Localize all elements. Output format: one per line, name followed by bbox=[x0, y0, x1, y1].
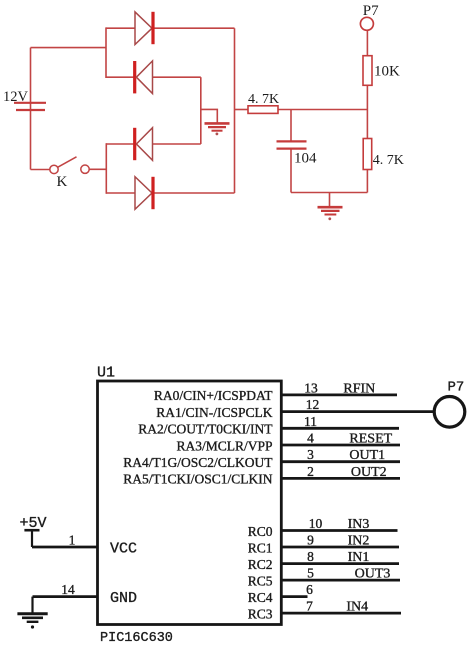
diode D2 cathode bar bbox=[133, 61, 136, 93]
ground G2 bars bbox=[318, 207, 343, 214]
diode D4 triangle bbox=[135, 177, 152, 210]
wire mid vertical D2-D3 bbox=[200, 77, 202, 144]
svg-text:U1: U1 bbox=[97, 365, 115, 382]
svg-text:9: 9 bbox=[307, 533, 314, 548]
power +5V symbol bbox=[24, 529, 39, 532]
diode D4 anode wire bbox=[106, 192, 135, 194]
pin names RA group bbox=[123, 388, 273, 487]
wire junction down to R3 bbox=[366, 110, 368, 139]
switch K right contact bbox=[81, 165, 89, 173]
svg-text:11: 11 bbox=[304, 414, 317, 429]
pin 1 stub bbox=[32, 546, 98, 549]
power +5V stem bbox=[31, 530, 33, 547]
svg-text:RC0: RC0 bbox=[248, 524, 273, 539]
ground G2 stub bbox=[329, 193, 331, 207]
diode D2 left wire bbox=[106, 76, 134, 78]
pin 11 stub bbox=[281, 427, 399, 430]
svg-text:OUT1: OUT1 bbox=[349, 448, 385, 463]
svg-text:P7: P7 bbox=[363, 3, 379, 19]
wire right vertical bbox=[234, 28, 236, 193]
svg-text:RA2/COUT/T0CKI/INT: RA2/COUT/T0CKI/INT bbox=[138, 422, 273, 437]
pin 12 stub to P7 bbox=[281, 410, 433, 413]
switch K lever bbox=[58, 157, 77, 167]
diode D2 triangle bbox=[136, 61, 152, 94]
svg-text:3: 3 bbox=[307, 447, 314, 462]
diode D2 right wire bbox=[153, 76, 201, 78]
svg-text:RC3: RC3 bbox=[248, 606, 273, 621]
svg-text:10: 10 bbox=[309, 516, 323, 531]
resistor R2 10K body bbox=[363, 56, 372, 86]
diode D3 right wire bbox=[153, 143, 201, 145]
wire switch to node B bbox=[89, 168, 106, 170]
svg-text:VCC: VCC bbox=[110, 540, 137, 557]
capacitor C1 bottom stub bbox=[290, 149, 292, 193]
resistor R3 4.7K body bbox=[363, 139, 372, 170]
switch K left contact bbox=[50, 165, 58, 173]
pin 10 stub bbox=[281, 529, 397, 532]
svg-text:IN3: IN3 bbox=[348, 517, 370, 532]
wire battery vertical bbox=[30, 48, 32, 170]
svg-text:1: 1 bbox=[69, 533, 76, 548]
ground G1 dot bbox=[216, 133, 219, 136]
svg-text:PIC16C630: PIC16C630 bbox=[100, 631, 173, 646]
ground G3 dot bbox=[31, 625, 34, 628]
pin 2 stub bbox=[281, 477, 400, 480]
svg-text:5: 5 bbox=[307, 566, 314, 581]
svg-text:IN4: IN4 bbox=[346, 600, 368, 615]
svg-text:10K: 10K bbox=[374, 63, 400, 79]
pin 3 stub bbox=[281, 460, 400, 463]
svg-text:RC1: RC1 bbox=[248, 540, 273, 555]
svg-text:RA0/CIN+/ICSPDAT: RA0/CIN+/ICSPDAT bbox=[154, 388, 273, 403]
pin 5 stub bbox=[281, 579, 400, 582]
pin stub lines right bbox=[32, 395, 433, 613]
wire R1 to junction bbox=[278, 109, 367, 111]
node B vertical wire bbox=[105, 143, 107, 194]
pin 7 stub bbox=[281, 612, 401, 615]
ground G2 dot bbox=[328, 217, 331, 220]
diode D4 cathode wire bbox=[154, 192, 235, 194]
wire R2 to P7 terminal bbox=[366, 30, 368, 56]
terminal P7 top circle bbox=[360, 17, 373, 30]
svg-text:4: 4 bbox=[307, 431, 314, 446]
svg-text:12: 12 bbox=[306, 397, 320, 412]
diode D3 cathode bar bbox=[133, 128, 136, 160]
terminal P7 bottom circle bbox=[434, 397, 465, 428]
pin names RC group bbox=[248, 524, 273, 622]
pin 8 stub bbox=[281, 562, 399, 565]
pin numbers bbox=[61, 380, 322, 613]
svg-text:104: 104 bbox=[294, 151, 317, 167]
svg-text:K: K bbox=[57, 174, 68, 190]
ground G1 bars bbox=[205, 123, 230, 130]
svg-text:+5V: +5V bbox=[20, 515, 47, 532]
svg-text:P7: P7 bbox=[448, 380, 465, 396]
pin 4 stub bbox=[281, 444, 400, 447]
wire battery to switch bbox=[31, 169, 50, 171]
svg-text:RFIN: RFIN bbox=[343, 381, 375, 396]
svg-text:2: 2 bbox=[307, 464, 314, 479]
pin 6 stub bbox=[281, 595, 307, 598]
svg-text:IN2: IN2 bbox=[348, 534, 370, 549]
svg-text:4. 7K: 4. 7K bbox=[373, 153, 404, 168]
pin 14 stub bbox=[33, 595, 98, 598]
svg-text:RC2: RC2 bbox=[248, 557, 273, 572]
svg-text:OUT3: OUT3 bbox=[355, 567, 391, 582]
svg-text:RA5/T1CKI/OSC1/CLKIN: RA5/T1CKI/OSC1/CLKIN bbox=[123, 472, 273, 487]
svg-text:IN1: IN1 bbox=[348, 550, 370, 565]
svg-text:4. 7K: 4. 7K bbox=[248, 92, 279, 107]
diode D4 cathode bar bbox=[151, 177, 154, 209]
pin 13 stub bbox=[281, 393, 397, 396]
svg-text:GND: GND bbox=[110, 590, 137, 607]
net labels bbox=[343, 381, 392, 614]
svg-text:RC4: RC4 bbox=[248, 590, 273, 605]
wire bottom run bbox=[291, 192, 367, 194]
IC U1 box bbox=[98, 381, 282, 625]
svg-text:7: 7 bbox=[306, 599, 313, 614]
svg-text:RA4/T1G/OSC2/CLKOUT: RA4/T1G/OSC2/CLKOUT bbox=[123, 455, 273, 470]
svg-text:RESET: RESET bbox=[349, 432, 392, 447]
diode D1 triangle bbox=[135, 12, 152, 45]
resistor R1 4.7K body bbox=[248, 106, 278, 114]
capacitor C1 top stub bbox=[290, 110, 292, 142]
svg-text:6: 6 bbox=[306, 582, 313, 597]
ground G1 branch wire bbox=[201, 109, 218, 122]
diode D1 anode wire bbox=[106, 27, 135, 29]
battery B1 plates bbox=[14, 103, 46, 110]
svg-text:RC5: RC5 bbox=[248, 573, 273, 588]
wire R3 to bottom run bbox=[366, 170, 368, 193]
pin 9 stub bbox=[281, 546, 399, 549]
svg-text:RA3/MCLR/VPP: RA3/MCLR/VPP bbox=[176, 438, 272, 453]
ground G3 bars bbox=[17, 614, 47, 622]
svg-text:RA1/CIN-/ICSPCLK: RA1/CIN-/ICSPCLK bbox=[156, 405, 273, 420]
capacitor C1 plates bbox=[277, 141, 307, 148]
svg-text:12V: 12V bbox=[3, 89, 29, 105]
wire battery top to node A bbox=[31, 47, 107, 49]
svg-text:OUT2: OUT2 bbox=[351, 465, 387, 480]
node A vertical wire bbox=[105, 27, 107, 78]
diode D3 triangle bbox=[136, 128, 152, 161]
svg-text:8: 8 bbox=[307, 549, 314, 564]
diode D3 left wire bbox=[106, 143, 134, 145]
wire right vertical to R1 bbox=[235, 109, 249, 111]
diode D1 cathode wire bbox=[154, 27, 235, 29]
svg-text:13: 13 bbox=[304, 380, 318, 395]
svg-text:14: 14 bbox=[61, 582, 75, 597]
diode D1 cathode bar bbox=[151, 12, 154, 44]
wire junction up to R2 bbox=[366, 85, 368, 109]
ground G3 stem bbox=[31, 597, 33, 614]
